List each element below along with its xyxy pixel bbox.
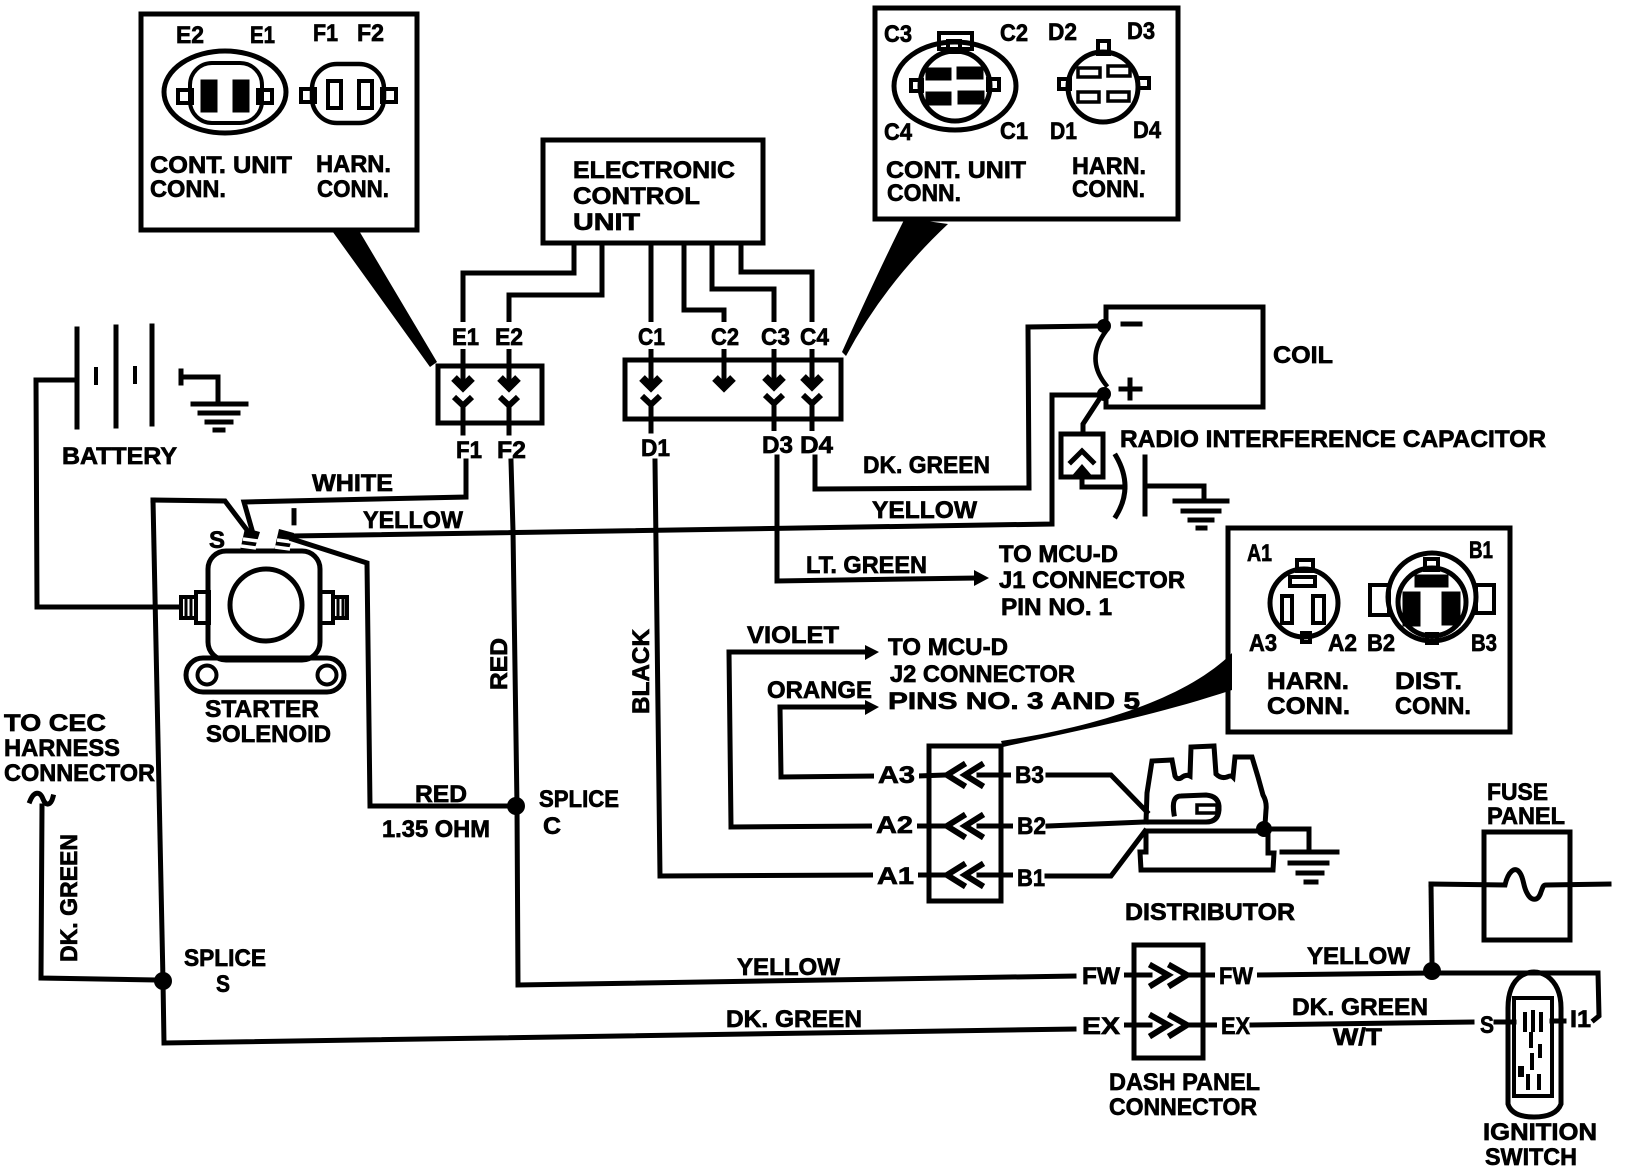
svg-text:YELLOW: YELLOW — [737, 954, 840, 981]
wire fuse panel down to yellow junction — [1431, 884, 1432, 962]
label HARN. CONN. — [1072, 153, 1146, 203]
wire label B1 — [1013, 865, 1049, 892]
svg-text:VIOLET: VIOLET — [747, 622, 839, 649]
wire label C2 — [707, 322, 743, 351]
wire label A1 — [873, 863, 918, 890]
svg-text:CONN.: CONN. — [1267, 693, 1350, 720]
wire A3 row to label — [781, 776, 874, 777]
label CONT. UNIT CONN. — [886, 157, 1026, 207]
svg-text:SPLICE: SPLICE — [539, 786, 619, 813]
A3/B3 mating chevrons — [917, 765, 1013, 785]
arrowhead ORANGE — [865, 700, 879, 715]
pointer wedge from C/D legend box to connector block — [842, 218, 948, 356]
EX mating chevrons — [1122, 1016, 1216, 1035]
label HARN. CONN. — [1267, 668, 1350, 720]
svg-text:TO MCU-D: TO MCU-D — [888, 634, 1008, 661]
wire into fuse and fuse element — [1431, 870, 1609, 900]
connector A harness face (3-pin) — [1270, 560, 1338, 642]
distributor body split line — [1146, 820, 1202, 825]
svg-text:C: C — [543, 813, 561, 840]
distributor ground symbol — [1282, 852, 1337, 882]
svg-text:A3: A3 — [878, 762, 915, 789]
svg-text:DIST.: DIST. — [1395, 668, 1462, 695]
svg-text:B3: B3 — [1471, 630, 1497, 657]
svg-text:W/T: W/T — [1333, 1024, 1382, 1051]
wire label A3 — [874, 762, 919, 789]
wire F2/RED down to splice C — [511, 461, 517, 806]
svg-text:YELLOW: YELLOW — [872, 497, 977, 524]
connector block A/B — [929, 746, 1001, 901]
ignition switch body — [1508, 972, 1561, 1117]
svg-text:D3: D3 — [1127, 18, 1155, 45]
wire battery feed to solenoid S terminal — [153, 500, 247, 530]
wire I1 stub into switch — [1552, 1019, 1564, 1024]
A1/B1 mating chevrons — [917, 865, 1013, 885]
label SPLICE S — [184, 945, 266, 998]
label CONT. UNIT CONN. — [150, 152, 292, 203]
svg-text:CONNECTOR: CONNECTOR — [4, 760, 155, 787]
svg-text:ELECTRONIC: ELECTRONIC — [573, 157, 735, 184]
svg-text:C1: C1 — [1000, 118, 1028, 145]
distributor cap outline — [1146, 746, 1266, 825]
wire splice-S riser — [153, 500, 163, 981]
svg-text:C3: C3 — [761, 324, 790, 351]
box: E/F control unit + harness connector legend — [141, 14, 417, 230]
svg-text:STARTER: STARTER — [205, 696, 319, 723]
box: A/B harness + distributor connector legend — [1228, 528, 1510, 732]
svg-text:DISTRIBUTOR: DISTRIBUTOR — [1125, 899, 1295, 926]
wire label EX (left) — [1078, 1012, 1124, 1040]
arrowhead LT. GREEN — [974, 570, 989, 586]
label DIST. CONN. — [1395, 668, 1471, 720]
wire label C1 — [634, 322, 669, 351]
svg-text:E1: E1 — [250, 22, 275, 49]
coil minus sign — [1123, 322, 1140, 327]
wire B3 to distributor — [1048, 775, 1147, 812]
svg-text:J1 CONNECTOR: J1 CONNECTOR — [999, 567, 1185, 594]
svg-text:C1: C1 — [638, 324, 665, 351]
battery — [77, 326, 152, 427]
wire ECU to C4 — [741, 243, 812, 362]
connector F harness face (2-pin) — [301, 64, 396, 123]
wire label D4 — [796, 431, 837, 459]
capacitor straight plate — [1143, 457, 1148, 514]
wire label E1 — [448, 322, 483, 351]
battery ground symbol — [181, 371, 246, 430]
svg-text:B1: B1 — [1017, 865, 1045, 892]
svg-text:HARNESS: HARNESS — [4, 735, 120, 762]
svg-text:TO MCU-D: TO MCU-D — [999, 541, 1118, 568]
pointer wedge from E/F legend box to connector block — [330, 228, 437, 367]
wire F1 to WHITE run to solenoid S — [244, 461, 466, 530]
wire label FW (left) — [1078, 962, 1124, 990]
wire ECU to C2 — [684, 243, 724, 362]
electronic control unit box — [543, 140, 763, 243]
wire YELLOW solenoid I to coil positive — [292, 395, 1097, 536]
svg-text:D4: D4 — [1133, 117, 1162, 144]
E2 mating arrow — [500, 366, 518, 433]
C1/D1 mating arrow — [642, 362, 660, 431]
splice C junction dot — [507, 797, 525, 815]
wire ECU to E1 — [463, 243, 574, 366]
svg-text:B1: B1 — [1469, 537, 1493, 564]
wire S stub into switch — [1496, 1020, 1514, 1025]
svg-text:DK. GREEN: DK. GREEN — [1292, 994, 1428, 1021]
distributor ground junction dot — [1256, 821, 1272, 837]
svg-text:A2: A2 — [876, 812, 913, 839]
connector block E/F — [438, 366, 542, 423]
coil plus sign — [1121, 380, 1140, 398]
svg-text:BATTERY: BATTERY — [62, 443, 177, 470]
svg-text:UNIT: UNIT — [573, 209, 640, 236]
distributor rotor — [1173, 795, 1219, 822]
svg-text:C4: C4 — [800, 324, 830, 351]
svg-text:CONNECTOR: CONNECTOR — [1109, 1094, 1257, 1121]
wire label A2 — [872, 812, 917, 839]
svg-text:EX: EX — [1221, 1013, 1250, 1040]
wire ORANGE from A3 to MCU-D J2 — [780, 707, 866, 776]
coil negative terminal dot — [1097, 319, 1111, 333]
ignition switch internal dashes — [1518, 1034, 1540, 1088]
wire RED 1.35 OHM from solenoid I to splice C — [292, 539, 507, 806]
distributor base — [1140, 831, 1274, 870]
svg-text:WHITE: WHITE — [312, 470, 393, 497]
solenoid motor terminal right — [320, 592, 347, 623]
wire label B3 — [1011, 762, 1048, 789]
svg-text:D1: D1 — [1050, 118, 1077, 145]
box: C/D control unit + harness connector legend — [875, 8, 1178, 219]
coil box — [1096, 307, 1264, 407]
svg-text:YELLOW: YELLOW — [1307, 943, 1410, 970]
svg-text:J2 CONNECTOR: J2 CONNECTOR — [890, 661, 1075, 688]
label STARTER SOLENOID — [205, 696, 331, 748]
svg-text:D2: D2 — [1048, 19, 1077, 46]
svg-text:LT. GREEN: LT. GREEN — [806, 552, 927, 579]
wire FW yellow to ignition switch I1 — [1256, 973, 1599, 1020]
svg-text:RED: RED — [415, 781, 467, 808]
wire A2 row to label — [731, 826, 872, 827]
connector D harness face (4-pin) — [1059, 41, 1149, 122]
wire label C3 — [757, 322, 794, 351]
svg-text:CONN.: CONN. — [317, 176, 389, 203]
note TO MCU-D J2 CONNECTOR PINS NO. 3 AND 5 — [888, 634, 1140, 715]
E1 mating arrow — [454, 366, 472, 433]
svg-text:I1: I1 — [1570, 1006, 1591, 1033]
C3/D3 mating arrow — [765, 362, 783, 430]
fuse panel box — [1484, 832, 1570, 940]
svg-text:HARN.: HARN. — [1267, 668, 1349, 695]
svg-text:E2: E2 — [176, 22, 204, 49]
svg-text:FW: FW — [1082, 963, 1120, 990]
svg-text:SPLICE: SPLICE — [184, 945, 266, 972]
wire label FW (right) — [1215, 962, 1257, 990]
C4/D4 mating arrow — [803, 362, 821, 430]
wire splice C down to FW yellow run — [517, 806, 1074, 985]
svg-text:PANEL: PANEL — [1487, 803, 1565, 830]
wire label C4 — [796, 322, 833, 351]
svg-text:B2: B2 — [1367, 630, 1395, 657]
svg-text:SOLENOID: SOLENOID — [206, 721, 331, 748]
wire ECU to E2 — [509, 243, 602, 366]
svg-text:E1: E1 — [452, 324, 479, 351]
svg-text:A1: A1 — [877, 863, 914, 890]
radio interference capacitor connector — [1061, 434, 1125, 487]
CEC wire break squiggle — [30, 793, 53, 804]
svg-text:RED: RED — [486, 638, 513, 690]
wire label EX (right) — [1217, 1012, 1254, 1040]
svg-text:BLACK: BLACK — [628, 628, 655, 714]
wire D3/LT. GREEN to MCU-D J1 — [777, 457, 975, 581]
svg-text:F1: F1 — [456, 437, 482, 464]
connector block C/D — [625, 360, 841, 419]
wire label F1 — [452, 436, 486, 464]
wire label F2 — [493, 436, 530, 464]
FW mating chevrons — [1122, 966, 1216, 985]
connector E control-unit face (oval 2-pin) — [164, 51, 286, 133]
capacitor ground symbol — [1175, 501, 1227, 528]
svg-text:DK. GREEN: DK. GREEN — [56, 834, 83, 962]
wire battery to solenoid battery terminal — [36, 380, 180, 607]
note TO CEC HARNESS CONNECTOR — [4, 710, 155, 787]
wire D4/DK. GREEN to coil negative — [815, 326, 1097, 489]
label HARN. CONN. — [316, 151, 391, 203]
svg-text:C2: C2 — [711, 324, 739, 351]
label FUSE PANEL — [1487, 779, 1565, 830]
svg-text:A3: A3 — [1249, 630, 1277, 657]
svg-text:CONT. UNIT: CONT. UNIT — [150, 152, 292, 179]
wire EX dk green to ignition switch S — [1252, 1022, 1472, 1025]
svg-text:S: S — [209, 527, 225, 554]
svg-text:TO CEC: TO CEC — [4, 710, 106, 737]
svg-text:I: I — [290, 504, 298, 531]
svg-text:D1: D1 — [641, 435, 670, 462]
svg-text:DK. GREEN: DK. GREEN — [726, 1006, 862, 1033]
coil positive terminal dot — [1097, 387, 1111, 401]
wire B2 to distributor — [1048, 822, 1145, 826]
svg-text:C3: C3 — [884, 21, 912, 48]
wire label D1 — [637, 434, 674, 462]
connector C control-unit face (oval 4-pin) — [894, 33, 1016, 130]
svg-text:ORANGE: ORANGE — [767, 677, 872, 704]
wire DK. GREEN to CEC harness connector — [41, 806, 154, 980]
solenoid mounting bracket — [186, 658, 344, 692]
svg-text:A2: A2 — [1328, 630, 1357, 657]
capacitor curved plate — [1116, 456, 1125, 516]
wire VIOLET from A2 to MCU-D J2 — [729, 652, 866, 826]
svg-text:FW: FW — [1219, 963, 1253, 990]
svg-text:CONN.: CONN. — [887, 180, 961, 207]
connector B distributor face (3-pin) — [1370, 553, 1494, 643]
wire B1 to distributor — [1047, 831, 1145, 876]
ignition switch contact ticks — [1525, 1012, 1541, 1030]
svg-text:COIL: COIL — [1273, 342, 1333, 369]
svg-text:B3: B3 — [1015, 762, 1044, 789]
wire distributor to ground — [1269, 829, 1309, 851]
C2 mating arrow — [715, 362, 733, 387]
solenoid S terminal stud — [240, 528, 260, 551]
capacitor wire to ground — [1148, 486, 1204, 500]
svg-text:SWITCH: SWITCH — [1485, 1144, 1577, 1168]
A2/B2 mating chevrons — [917, 816, 1013, 836]
wire coil positive to capacitor connector — [1083, 398, 1100, 434]
svg-text:DK. GREEN: DK. GREEN — [863, 452, 990, 479]
svg-text:C4: C4 — [884, 119, 913, 146]
note TO MCU-D J1 CONNECTOR PIN NO. 1 — [999, 541, 1185, 621]
solenoid battery terminal left — [181, 592, 209, 623]
svg-text:DASH PANEL: DASH PANEL — [1109, 1069, 1260, 1096]
splice S junction dot — [154, 972, 172, 990]
label DK. GREEN W/T — [1292, 994, 1428, 1051]
svg-text:PINS NO. 3 AND 5: PINS NO. 3 AND 5 — [888, 688, 1140, 715]
pointer wedge from A/B legend box to connector block — [1001, 653, 1232, 747]
svg-text:IGNITION: IGNITION — [1483, 1119, 1597, 1146]
svg-text:CONN.: CONN. — [1395, 693, 1471, 720]
label DASH PANEL CONNECTOR — [1109, 1069, 1260, 1121]
svg-text:CONN.: CONN. — [1072, 176, 1145, 203]
svg-text:CONN.: CONN. — [150, 176, 226, 203]
starter solenoid body — [208, 551, 320, 660]
arrowhead VIOLET — [865, 645, 879, 660]
wire ECU to C1 — [649, 243, 654, 362]
svg-text:S: S — [216, 971, 230, 998]
svg-text:C2: C2 — [1000, 20, 1028, 47]
solenoid I terminal stud — [274, 529, 294, 552]
label SPLICE C — [539, 786, 619, 840]
wire label E2 — [491, 322, 527, 351]
wire label D3 — [758, 431, 797, 459]
svg-text:FUSE: FUSE — [1487, 779, 1548, 806]
wire D1/BLACK down and right to A1 — [655, 461, 872, 876]
svg-text:1.35 OHM: 1.35 OHM — [382, 816, 490, 843]
wire label B2 — [1013, 813, 1050, 840]
svg-text:S: S — [1480, 1012, 1494, 1039]
svg-text:HARN.: HARN. — [316, 151, 391, 178]
dash panel connector box — [1134, 945, 1203, 1058]
svg-text:A1: A1 — [1247, 540, 1272, 567]
svg-text:PIN NO. 1: PIN NO. 1 — [1001, 594, 1112, 621]
label IGNITION SWITCH — [1483, 1119, 1597, 1168]
svg-text:EX: EX — [1082, 1013, 1120, 1040]
svg-text:CONTROL: CONTROL — [573, 183, 700, 210]
wire ECU to C3 — [712, 243, 774, 362]
junction dot fuse/yellow — [1423, 962, 1441, 980]
svg-text:F2: F2 — [357, 20, 384, 47]
svg-text:B2: B2 — [1017, 813, 1046, 840]
wire DK. GREEN splice S to EX run — [163, 981, 1074, 1043]
svg-text:RADIO INTERFERENCE CAPACITOR: RADIO INTERFERENCE CAPACITOR — [1120, 426, 1546, 453]
svg-text:E2: E2 — [495, 324, 523, 351]
svg-text:F1: F1 — [313, 20, 338, 47]
svg-text:YELLOW: YELLOW — [363, 507, 463, 534]
